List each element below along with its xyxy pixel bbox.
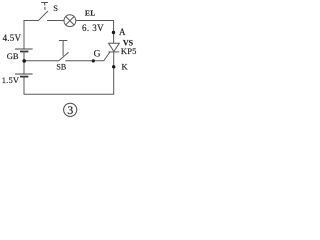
- svg-text:A: A: [119, 27, 126, 37]
- svg-text:6. 3V: 6. 3V: [82, 23, 104, 33]
- svg-text:S: S: [53, 3, 58, 13]
- svg-text:1.5V: 1.5V: [2, 75, 20, 85]
- svg-text:KP5: KP5: [121, 46, 137, 56]
- svg-text:3: 3: [67, 103, 73, 117]
- svg-text:GB: GB: [7, 51, 19, 61]
- svg-text:G: G: [94, 49, 101, 59]
- svg-text:SB: SB: [56, 62, 66, 71]
- svg-text:4.5V: 4.5V: [3, 33, 22, 43]
- svg-text:K: K: [122, 62, 129, 72]
- svg-text:EL: EL: [85, 9, 96, 18]
